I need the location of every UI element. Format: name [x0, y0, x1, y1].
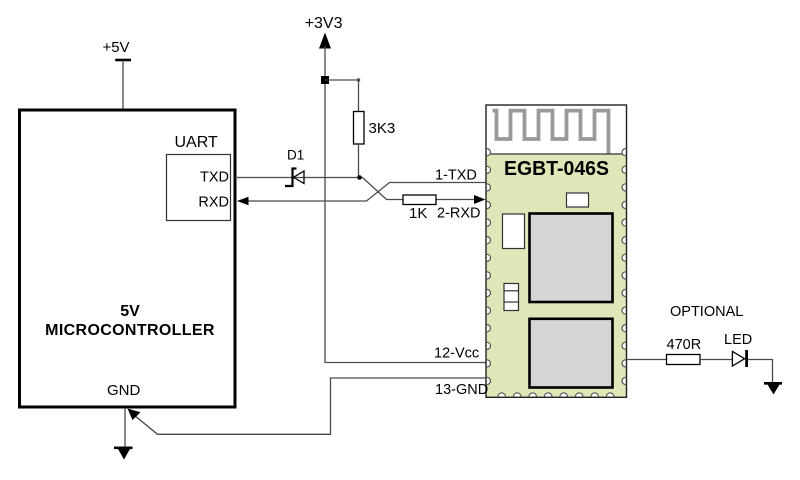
- wire module GND return: [131, 378, 486, 434]
- resistor 470R: [667, 355, 701, 365]
- junction dot 3K3/TXD: [357, 175, 362, 180]
- svg-text:+5V: +5V: [102, 39, 129, 56]
- svg-text:1K: 1K: [409, 205, 427, 222]
- microcontroller block: [20, 110, 236, 407]
- wire module 1-TXD to microcontroller RXD: [247, 183, 486, 202]
- wire 470R to LED: [700, 359, 732, 361]
- left pads: [487, 149, 491, 385]
- svg-text:UART: UART: [175, 134, 218, 151]
- wire LED to ground: [748, 360, 773, 383]
- antenna meander: [493, 111, 609, 154]
- resistor 1K: [403, 195, 436, 205]
- wire module Vcc to 470R: [627, 359, 667, 361]
- module green pcb body: [486, 155, 627, 398]
- svg-text:1-TXD: 1-TXD: [435, 168, 477, 184]
- svg-text:TXD: TXD: [200, 170, 229, 186]
- svg-text:12-Vcc: 12-Vcc: [434, 346, 479, 362]
- node dot at 3K3 top: [357, 78, 361, 82]
- arrow into microcontroller RXD: [237, 197, 249, 206]
- arrow into module 2-RXD: [474, 195, 486, 204]
- crystal component: [504, 284, 519, 311]
- resistor 3K3: [354, 112, 365, 145]
- ground symbol (microcontroller): [114, 448, 133, 460]
- right pads: [622, 149, 626, 385]
- wire +3V3 down to Vcc: [325, 46, 486, 363]
- wire +5V to microcontroller: [122, 60, 124, 110]
- svg-text:GND: GND: [107, 382, 141, 399]
- bluetooth module EGBT-046S: [486, 105, 627, 397]
- svg-text:13-GND: 13-GND: [435, 382, 488, 398]
- wire 1K to module RXD: [436, 199, 476, 201]
- IC chip 2: [530, 319, 613, 388]
- ground symbol (LED): [764, 383, 782, 394]
- wire junction to 3K3: [325, 80, 359, 112]
- divider line white/green: [486, 153, 627, 155]
- smd component top: [567, 193, 589, 207]
- svg-text:RXD: RXD: [198, 195, 229, 211]
- wire 3K3 to TXD line: [358, 144, 360, 178]
- svg-text:2-RXD: 2-RXD: [437, 206, 481, 222]
- arrow into microcontroller GND: [128, 409, 141, 421]
- svg-text:5V: 5V: [120, 303, 140, 320]
- module outline: [486, 105, 627, 397]
- diode D1 (zener): [285, 169, 304, 187]
- wire microcontroller GND to ground: [124, 408, 126, 447]
- power +5V bar: [115, 59, 131, 62]
- module white antenna section: [486, 105, 627, 155]
- LED diode: [732, 350, 746, 367]
- wire TXD from microcontroller: [235, 178, 403, 200]
- power +3V3 arrow: [319, 33, 331, 49]
- UART port box: [167, 155, 231, 221]
- svg-text:LED: LED: [724, 332, 752, 348]
- svg-text:EGBT-046S: EGBT-046S: [504, 158, 609, 180]
- smd component left: [503, 214, 525, 249]
- IC chip 1: [530, 214, 613, 303]
- junction node at +3V3: [321, 76, 329, 84]
- svg-text:MICROCONTROLLER: MICROCONTROLLER: [45, 322, 215, 339]
- bottom pads: [498, 393, 614, 397]
- svg-text:+3V3: +3V3: [305, 15, 343, 32]
- svg-text:OPTIONAL: OPTIONAL: [670, 304, 743, 320]
- svg-text:3K3: 3K3: [369, 120, 396, 137]
- svg-text:D1: D1: [287, 148, 304, 163]
- svg-text:470R: 470R: [667, 337, 702, 353]
